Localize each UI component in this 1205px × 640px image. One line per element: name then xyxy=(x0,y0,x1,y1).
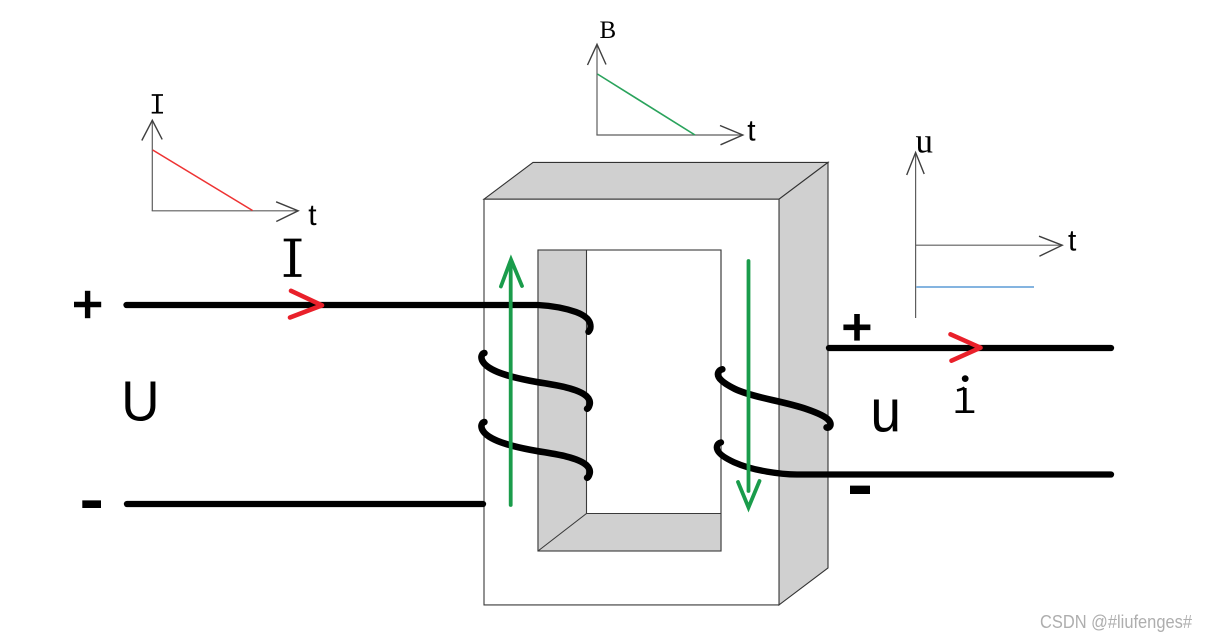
svg-text:t: t xyxy=(1068,224,1077,257)
transformer core: inner left and bottom walls xyxy=(538,250,721,551)
coil: primary turn 2 xyxy=(481,353,589,409)
current arrow: secondary red chevron xyxy=(951,334,981,360)
coil: primary turn 3 xyxy=(481,422,589,478)
flux arrow: right leg downward xyxy=(738,261,760,508)
graph 2: flux B-t axes xyxy=(588,44,743,145)
wire: secondary top output lead xyxy=(829,345,1111,351)
current arrow: primary red chevron xyxy=(290,291,322,318)
graph 1: primary current I-t axes xyxy=(142,120,298,221)
graph 1: axis label I xyxy=(152,95,163,113)
label: secondary plus sign xyxy=(843,314,870,341)
svg-text:U: U xyxy=(121,369,159,433)
wire: primary bottom lead xyxy=(127,501,483,507)
transformer core: window outline redraw xyxy=(538,250,721,551)
label: secondary minus sign xyxy=(850,486,870,494)
transformer core: right face xyxy=(779,162,828,605)
label: primary minus sign xyxy=(82,500,101,508)
svg-text:t: t xyxy=(747,115,756,148)
coil: secondary turn A xyxy=(718,369,831,427)
graph 3: secondary voltage u-t axes xyxy=(907,153,1062,319)
coil: secondary turn B + bottom output wire xyxy=(717,442,1111,474)
flux arrow: left leg upward xyxy=(501,260,522,506)
label: secondary current i xyxy=(956,375,975,412)
svg-text:CSDN @#liufenges#: CSDN @#liufenges# xyxy=(1040,612,1192,632)
wire: primary top lead + coil turn 1 xyxy=(127,305,591,332)
graph 1: red I(t) ramp curve xyxy=(153,150,253,211)
transformer core: top face xyxy=(484,162,828,199)
svg-text:B: B xyxy=(600,17,617,44)
svg-text:t: t xyxy=(308,199,317,232)
svg-text:u: u xyxy=(916,122,934,161)
graph 3: blue u(t) constant line xyxy=(916,286,1034,288)
label: primary current I xyxy=(284,240,302,276)
transformer core: inner wall edges xyxy=(538,250,721,551)
transformer core: front face with window xyxy=(484,199,779,605)
label: primary plus sign xyxy=(74,291,101,318)
graph 2: green B(t) ramp curve xyxy=(597,74,695,135)
svg-text:u: u xyxy=(870,378,901,445)
